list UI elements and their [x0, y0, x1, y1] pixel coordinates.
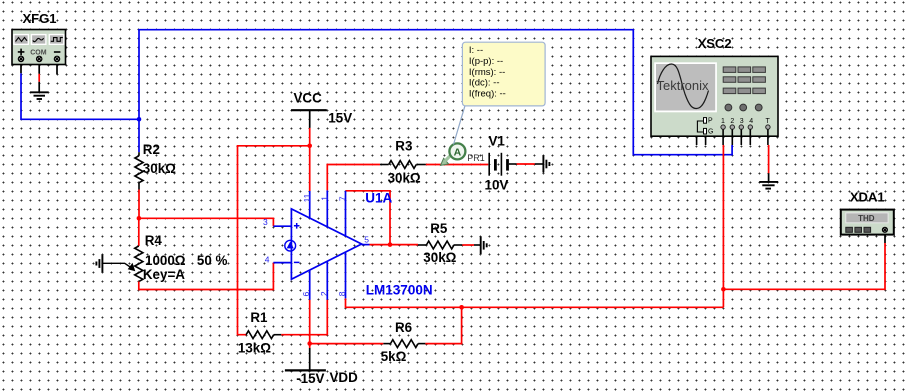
- minus label: [54, 51, 61, 53]
- node XDA1 junction: [721, 287, 726, 292]
- wire R1 right to op-amp pin 2: [281, 300, 327, 335]
- wire R6 right up to output bus: [425, 307, 461, 343]
- svg-text:COM: COM: [30, 49, 47, 56]
- button square wave: [49, 35, 64, 45]
- wire input junction to oscilloscope channel 2 (blue): [139, 30, 732, 155]
- XDA1 terminal: [882, 227, 887, 232]
- wire R4 bottom to op-amp pin 4: [139, 263, 274, 290]
- resistor R6 5k: [381, 320, 426, 364]
- resistor R2 30k: [135, 142, 176, 189]
- node output bus / R6 junction: [459, 305, 464, 310]
- wire R2 bottom to junction: [138, 190, 140, 219]
- wire op-amp pin 1 to R3: [327, 165, 380, 191]
- svg-text:R6: R6: [395, 320, 412, 335]
- svg-text:THD: THD: [858, 214, 875, 223]
- resistor R5 30k: [418, 221, 462, 265]
- svg-text:R3: R3: [395, 139, 412, 154]
- svg-text:50 %: 50 %: [197, 253, 228, 268]
- VCC supply 15V: [291, 90, 352, 128]
- svg-text:11: 11: [302, 193, 312, 202]
- svg-text:30kΩ: 30kΩ: [388, 171, 421, 186]
- svg-text:I(dc): --: I(dc): --: [469, 78, 500, 89]
- scope screen: [654, 62, 717, 112]
- minus input sign: [294, 261, 300, 263]
- pin 11 line: [309, 191, 311, 218]
- pin 1 line: [326, 190, 328, 227]
- svg-text:T: T: [766, 118, 771, 125]
- wire VCC to pin 11: [309, 128, 311, 191]
- wire output junction loop to buffer pin 7: [346, 191, 391, 245]
- svg-text:P: P: [708, 118, 713, 125]
- wire R3 to battery V1: [426, 164, 489, 166]
- svg-text:3: 3: [263, 217, 268, 227]
- svg-text:R4: R4: [145, 233, 163, 248]
- svg-text:3: 3: [740, 118, 744, 125]
- scope terminal stubs: [697, 129, 768, 145]
- button sine wave: [31, 35, 46, 45]
- wire junction to XDA1: [723, 233, 885, 290]
- resistor R3 30k: [380, 139, 426, 186]
- svg-text:R5: R5: [430, 221, 448, 236]
- node output junction: [388, 242, 393, 247]
- svg-text:13kΩ: 13kΩ: [238, 341, 271, 356]
- svg-text:7: 7: [338, 196, 348, 201]
- resistor R1 13k: [238, 310, 281, 356]
- terminal COM: [37, 56, 42, 61]
- svg-text:6: 6: [301, 291, 311, 296]
- distortion analyzer XDA1: [841, 190, 894, 235]
- wire op-amp pin 6 down to VDD junction: [309, 300, 311, 344]
- wire XFG1 minus stub: [56, 65, 58, 75]
- wire junction to op-amp pin 3: [139, 218, 273, 226]
- probe tooltip leader line: [454, 106, 465, 145]
- op-amp U1A LM13700N (OTA): [263, 190, 433, 299]
- svg-text:10V: 10V: [485, 178, 509, 193]
- svg-text:Key=A: Key=A: [143, 267, 185, 282]
- svg-text:30kΩ: 30kΩ: [423, 250, 456, 265]
- svg-text:V1: V1: [489, 133, 506, 148]
- svg-text:LM13700N: LM13700N: [366, 283, 433, 298]
- wire R5 to right ground: [462, 244, 480, 246]
- wire V1 to right ground: [517, 163, 544, 165]
- battery V1 10V: [485, 133, 517, 192]
- ground below XFG1: [30, 92, 48, 99]
- svg-text:VCC: VCC: [294, 90, 323, 105]
- svg-text:VDD: VDD: [330, 370, 359, 385]
- svg-text:I(p-p): --: I(p-p): --: [469, 56, 503, 67]
- wire buffer pin 8 to output bus: [346, 298, 724, 307]
- svg-text:I(freq): --: I(freq): --: [469, 88, 506, 99]
- wire VDD junction to R6 left: [310, 343, 384, 345]
- bias current source circle: [285, 240, 296, 251]
- knobs: [725, 104, 762, 111]
- node input junction: [137, 117, 142, 122]
- pin 8 line: [345, 252, 347, 298]
- VDD supply -15V: [285, 344, 358, 387]
- svg-text:1000Ω: 1000Ω: [145, 253, 186, 268]
- oscilloscope XSC2: [651, 36, 778, 145]
- ground right of V1 (right facing): [543, 155, 549, 172]
- svg-text:5: 5: [364, 234, 369, 244]
- svg-text:8: 8: [337, 291, 347, 296]
- potentiometer R4 1000 ohm: [102, 218, 227, 282]
- svg-text:1: 1: [320, 196, 330, 201]
- plus label: [18, 49, 25, 56]
- svg-text:I(rms): --: I(rms): --: [469, 67, 505, 78]
- P G trigger pins: [697, 118, 713, 136]
- svg-text:R1: R1: [250, 310, 268, 325]
- pin 5 stub: [362, 244, 370, 246]
- svg-text:I: --: I: --: [469, 45, 483, 56]
- node VDD junction: [307, 341, 312, 346]
- pin 2 line: [326, 261, 328, 300]
- node R2/R4/pin3 junction: [137, 216, 142, 221]
- svg-text:1: 1: [721, 118, 725, 125]
- scope terminals: [721, 125, 770, 129]
- terminal minus: [54, 56, 59, 61]
- svg-text:XSC2: XSC2: [698, 36, 732, 51]
- ground right of R5 (right facing): [481, 236, 487, 254]
- svg-text:PR1: PR1: [467, 153, 485, 163]
- button grid: [723, 67, 765, 94]
- screen sine trace: [658, 64, 709, 109]
- function generator XFG1: [12, 11, 66, 65]
- svg-text:4: 4: [265, 254, 270, 264]
- pin 3 stub: [273, 225, 291, 227]
- ground below oscilloscope (down facing): [759, 182, 778, 189]
- node VCC junction: [307, 144, 312, 149]
- svg-text:G: G: [708, 129, 713, 136]
- svg-text:XFG1: XFG1: [23, 11, 57, 26]
- svg-text:Tektronix: Tektronix: [657, 78, 710, 93]
- svg-text:U1A: U1A: [365, 191, 392, 206]
- wire XFG1 COM to ground: [38, 65, 40, 93]
- pin 4 stub: [273, 262, 291, 264]
- probe PR1: [441, 143, 485, 165]
- svg-text:15V: 15V: [328, 111, 352, 126]
- wire oscilloscope channel 1 down: [722, 145, 724, 307]
- svg-text:A: A: [454, 146, 462, 158]
- wire input junction down to R2: [138, 119, 140, 152]
- svg-text:-15V: -15V: [296, 371, 324, 386]
- ground at R4 wiper (left facing): [96, 255, 102, 273]
- wire VCC junction to R1 left: [238, 146, 310, 335]
- wire op-amp pin 5 output to junction: [370, 244, 391, 246]
- wire XFG1 plus terminal to input net (blue): [21, 65, 139, 120]
- svg-text:5kΩ: 5kΩ: [381, 349, 407, 364]
- probe tooltip box: [462, 42, 545, 106]
- plus input sign: [294, 223, 300, 229]
- button triangle wave: [14, 35, 29, 45]
- svg-text:R2: R2: [143, 142, 160, 157]
- svg-text:XDA1: XDA1: [850, 190, 885, 205]
- svg-text:30kΩ: 30kΩ: [143, 161, 176, 176]
- channel number labels: [721, 118, 771, 125]
- pin 6 line: [309, 270, 311, 300]
- svg-text:2: 2: [319, 291, 329, 296]
- svg-text:4: 4: [749, 118, 753, 125]
- pin 7 line: [345, 191, 347, 236]
- terminal plus: [18, 56, 23, 61]
- wire oscilloscope T terminal to ground: [768, 145, 770, 182]
- svg-text:2: 2: [730, 118, 734, 125]
- wire output junction to R5: [390, 244, 418, 246]
